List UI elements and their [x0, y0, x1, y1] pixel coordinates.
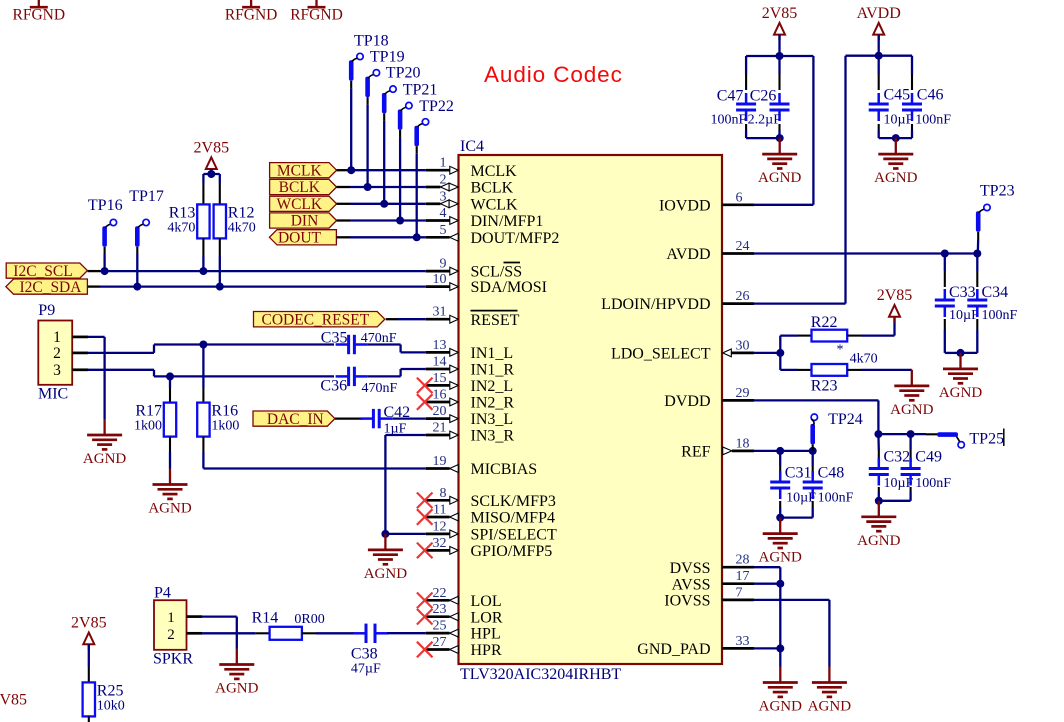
text caret artifact	[1003, 429, 1005, 447]
resistor R17 (1k00)	[134, 403, 176, 437]
pin 30 LDO_SELECT (right)	[611, 338, 754, 362]
svg-text:GPIO/MFP5: GPIO/MFP5	[471, 543, 553, 560]
capacitor C36 plates	[336, 367, 368, 386]
wire DAC_IN to C42	[335, 417, 363, 419]
svg-text:DIN: DIN	[291, 213, 319, 230]
svg-text:DVSS: DVSS	[670, 560, 711, 577]
pin 14 IN1_R (left)	[426, 355, 515, 379]
wire pin 18 REF	[754, 450, 813, 452]
svg-text:IOVSS: IOVSS	[664, 593, 710, 610]
pin 26 LDOIN/HPVDD (right)	[601, 289, 754, 313]
junction C33/C34 ground	[957, 349, 965, 357]
junction pin18/C31	[776, 447, 784, 455]
svg-text:HPR: HPR	[471, 642, 502, 659]
svg-text:4k70: 4k70	[228, 220, 256, 235]
wire C36 to pin 14	[368, 369, 426, 376]
svg-text:30: 30	[736, 338, 750, 353]
C48 labels	[818, 464, 854, 505]
svg-text:23: 23	[433, 602, 447, 617]
svg-text:AGND: AGND	[808, 699, 851, 715]
wire AVDD stem	[878, 35, 880, 56]
svg-text:AGND: AGND	[758, 170, 801, 186]
connector P9 (MIC)	[38, 302, 72, 402]
svg-text:TP19: TP19	[370, 49, 405, 66]
svg-text:1k00: 1k00	[211, 419, 239, 434]
svg-text:MCLK: MCLK	[471, 163, 518, 180]
junction 2V85 rail	[776, 52, 784, 60]
svg-text:R16: R16	[211, 403, 238, 420]
svg-text:C32: C32	[884, 448, 911, 465]
junction C31/C48 ground	[776, 514, 784, 522]
power symbol 2V85 (2V85-R13R12)	[194, 140, 230, 175]
resistor R16 (1k00)	[197, 403, 239, 437]
test point TP25 (horizontal)	[937, 431, 1004, 448]
svg-text:C35: C35	[321, 330, 348, 347]
junction MCLK/TP18	[347, 166, 355, 174]
svg-text:DOUT: DOUT	[278, 230, 322, 247]
junction I2C_SDA/TP17	[133, 283, 141, 291]
svg-text:IOVDD: IOVDD	[659, 197, 711, 214]
wire C47/C26 top rail	[746, 55, 813, 57]
svg-text:100nF: 100nF	[915, 112, 951, 127]
svg-text:R13: R13	[169, 204, 196, 221]
capacitor C47 plates	[736, 93, 756, 121]
svg-text:19: 19	[433, 454, 447, 469]
junction pin30	[776, 349, 784, 357]
svg-text:2V85: 2V85	[877, 287, 913, 304]
test point TP20	[382, 64, 421, 113]
svg-text:AGND: AGND	[939, 385, 982, 401]
ground symbol RFGND-3 (RFGND)	[290, 0, 343, 24]
net label flag CODEC_RESET	[254, 311, 385, 328]
svg-text:DVDD: DVDD	[664, 393, 710, 410]
test point TP18	[349, 32, 389, 80]
wire C45 top lead	[878, 56, 880, 90]
svg-text:29: 29	[736, 386, 750, 401]
wire AVDD rail	[846, 55, 913, 57]
C49 labels	[915, 448, 951, 491]
wire R17 to ground	[169, 437, 171, 469]
ground AGND-IOVSS	[808, 667, 851, 715]
junction C26 ground	[776, 134, 784, 142]
svg-text:IN2_L: IN2_L	[471, 378, 514, 395]
svg-text:AGND: AGND	[890, 402, 933, 418]
svg-text:C34: C34	[982, 284, 1009, 301]
svg-text:10µF: 10µF	[884, 476, 914, 491]
test point TP17	[129, 188, 164, 247]
svg-text:AGND: AGND	[148, 501, 191, 517]
svg-text:R25: R25	[97, 682, 124, 699]
svg-text:TP23: TP23	[980, 182, 1015, 199]
svg-text:2.2µF: 2.2µF	[748, 112, 782, 127]
svg-text:6: 6	[736, 190, 743, 205]
svg-text:32: 32	[433, 536, 447, 551]
junction pin33	[776, 644, 784, 652]
wire C32 bottom lead	[879, 487, 911, 501]
ground AGND-pin12	[364, 534, 407, 582]
wire pin 28 DVSS down	[754, 567, 780, 666]
test point TP23	[976, 182, 1015, 232]
wire C33 bottom lead	[945, 319, 961, 353]
net label flag MCLK	[270, 162, 337, 179]
svg-text:LDOIN/HPVDD: LDOIN/HPVDD	[601, 296, 710, 313]
power symbol 2V85 (2V85-R22)	[877, 287, 913, 322]
svg-text:17: 17	[736, 569, 750, 584]
wire C46 bottom lead	[896, 124, 912, 138]
wire C38 to pin 25	[387, 632, 426, 634]
pin 21 IN3_R (left)	[426, 421, 515, 445]
svg-text:2: 2	[53, 345, 61, 362]
capacitor C31 plates	[770, 471, 790, 499]
svg-text:C47: C47	[717, 87, 744, 104]
svg-text:WCLK: WCLK	[276, 196, 322, 213]
wire C47 bottom lead	[746, 124, 780, 138]
ground AGND-C32	[857, 501, 900, 549]
wire P4 pin1 to ground	[187, 617, 237, 649]
pin 3 WCLK (left)	[426, 189, 518, 213]
pin 27 HPR (left)	[426, 635, 502, 659]
svg-text:8: 8	[440, 486, 447, 501]
svg-text:LOR: LOR	[471, 609, 503, 626]
wire 2V85 to R25	[88, 644, 90, 682]
ground AGND-C26	[758, 138, 801, 186]
resistor R22	[812, 330, 848, 342]
wire pin 7 IOVSS down	[754, 600, 829, 667]
svg-text:12: 12	[433, 519, 447, 534]
net label flag BCLK	[270, 179, 337, 196]
wire pin 24 AVDD rail	[754, 252, 977, 254]
svg-text:2V85: 2V85	[194, 140, 230, 157]
wire R22 to 2V85	[847, 317, 894, 336]
C38 labels	[351, 646, 381, 677]
svg-text:DOUT/MFP2: DOUT/MFP2	[471, 230, 560, 247]
wire TP19 to bus line	[367, 97, 369, 187]
pin 7 IOVSS (right)	[664, 585, 754, 609]
svg-text:MICBIAS: MICBIAS	[471, 461, 538, 478]
wire P9 pin1 to ground	[72, 337, 104, 419]
capacitor C45 plates	[869, 93, 889, 121]
wire R25 bottom lead	[88, 716, 90, 722]
svg-text:2: 2	[167, 627, 175, 643]
capacitor C34 plates	[967, 289, 987, 317]
C47 labels	[711, 87, 747, 127]
capacitor C33 plates	[935, 289, 955, 317]
svg-text:100nF: 100nF	[818, 491, 854, 506]
svg-text:REF: REF	[681, 444, 710, 461]
svg-text:IN3_L: IN3_L	[471, 411, 514, 428]
svg-text:470nF: 470nF	[362, 381, 398, 396]
test point TP16	[88, 197, 123, 247]
svg-text:SPI/SELECT: SPI/SELECT	[471, 527, 557, 544]
wire C34 bottom lead	[961, 319, 978, 353]
svg-text:24: 24	[736, 239, 750, 254]
svg-text:100nF: 100nF	[711, 112, 747, 127]
svg-text:AVDD: AVDD	[666, 246, 710, 263]
svg-text:AVSS: AVSS	[672, 576, 711, 593]
pin 6 IOVDD (right)	[659, 190, 754, 214]
svg-text:AGND: AGND	[874, 170, 917, 186]
wire C33 top lead	[944, 254, 946, 288]
no-connect X pin 23	[417, 609, 433, 625]
svg-text:C45: C45	[884, 86, 911, 103]
wire 2V85 stem to R13/R12	[203, 169, 219, 174]
junction pin17	[776, 580, 784, 588]
junction BCLK/TP19	[364, 183, 372, 191]
net label flag DAC_IN	[253, 411, 335, 428]
svg-text:0R00: 0R00	[294, 612, 324, 627]
C35 labels	[321, 330, 397, 347]
resistor R25 (10k0)	[83, 682, 125, 716]
pin 28 DVSS (right)	[670, 553, 754, 577]
svg-text:P9: P9	[38, 302, 55, 319]
wire C47 top lead	[745, 56, 747, 90]
svg-text:RFGND: RFGND	[290, 7, 343, 24]
svg-text:MIC: MIC	[38, 385, 68, 402]
pin 23 LOR (left)	[426, 602, 503, 626]
wire MCLK flag to pin 1	[337, 169, 426, 171]
C34 labels	[982, 284, 1018, 323]
junction I2C_SCL/TP16	[101, 267, 109, 275]
wire R23 to ground	[847, 369, 912, 372]
capacitor C49 plates	[901, 458, 921, 486]
no-connect X pin 27	[417, 642, 433, 658]
wire AVDD rail down to pin 26	[754, 56, 846, 304]
C32 labels	[884, 448, 914, 491]
net label flag I2C_SCL	[6, 263, 87, 280]
wire R17 top lead	[169, 376, 171, 402]
wire C32/C49 top rail to TP25	[878, 433, 937, 435]
wire C31 top lead	[779, 451, 781, 477]
wire TP22 to bus line	[416, 146, 418, 237]
C36 labels	[320, 378, 397, 397]
capacitor C26 plates	[770, 93, 790, 121]
svg-text:R22: R22	[811, 314, 838, 331]
junction 2V85/R13/R12	[207, 170, 215, 178]
svg-text:13: 13	[433, 338, 447, 353]
svg-text:25: 25	[433, 619, 447, 634]
pin 4 DIN/MFP1 (left)	[426, 206, 544, 230]
pin 24 AVDD (right)	[666, 239, 754, 263]
svg-text:28: 28	[736, 553, 750, 568]
capacitor C42 plates	[360, 409, 392, 428]
IC IC4 body (TLV320AIC3204IRHBT audio codec)	[459, 155, 723, 664]
junction pin2-line/R16	[199, 341, 207, 349]
svg-text:TP18: TP18	[354, 32, 389, 49]
svg-text:14: 14	[433, 355, 447, 370]
pin 2 BCLK (left)	[426, 173, 514, 197]
wire DIN flag to pin 4	[337, 219, 426, 221]
pin 12 SPI/SELECT (left)	[426, 519, 557, 543]
wire C26 bottom lead	[778, 124, 780, 138]
junction C49/TP25	[907, 430, 915, 438]
svg-text:2V85: 2V85	[0, 692, 27, 709]
pin 32 GPIO/MFP5 (left)	[426, 536, 553, 560]
power symbol 2V85 (2V85-R25)	[71, 615, 107, 650]
wire I2C_SDA to pin 10	[88, 285, 426, 287]
capacitor C46 plates	[902, 93, 922, 121]
svg-text:HPL: HPL	[471, 626, 501, 643]
svg-text:31: 31	[433, 305, 447, 320]
svg-text:TP16: TP16	[88, 197, 123, 214]
svg-text:AGND: AGND	[215, 681, 258, 697]
wire P4 pin2 to R14	[187, 632, 270, 635]
wire TP24 to pin 18	[812, 444, 814, 451]
connector P4 (SPKR)	[153, 585, 193, 668]
svg-text:4k70: 4k70	[850, 351, 878, 366]
capacitor C35 plates	[336, 335, 368, 354]
svg-text:1: 1	[440, 156, 447, 171]
svg-text:P4: P4	[154, 585, 171, 602]
svg-text:3: 3	[440, 189, 447, 204]
wire R12 top lead	[219, 174, 221, 204]
pin 5 DOUT/MFP2 (left)	[426, 223, 560, 247]
ground AGND-DVSS	[759, 667, 802, 715]
wire P9 pin3 to C36	[72, 370, 334, 377]
no-connect X pin 22	[417, 593, 433, 609]
svg-text:10µF: 10µF	[884, 112, 914, 127]
power symbol 2V85 (2V85-C47)	[762, 5, 798, 40]
wire C49 bottom lead	[910, 487, 912, 501]
wire pin 17 AVSS	[754, 583, 780, 585]
pin 16 IN2_R (left)	[426, 388, 515, 412]
C42 labels	[384, 404, 411, 436]
R22 labels	[811, 314, 878, 366]
junction pin24/C33	[941, 250, 949, 258]
pin 11 MISO/MFP4 (left)	[426, 503, 555, 527]
svg-text:TP17: TP17	[129, 188, 164, 205]
junction C45/C46 ground	[892, 134, 900, 142]
ground AGND-C31	[759, 518, 802, 566]
svg-text:C36: C36	[320, 378, 347, 395]
ground AGND-R23	[890, 370, 933, 418]
svg-text:SCL/SS: SCL/SS	[471, 264, 523, 281]
test point TP21	[398, 81, 438, 130]
wire R23 left lead	[780, 369, 811, 371]
wire I2C_SCL to pin 9	[88, 270, 426, 272]
wire rail to pin 6	[754, 56, 813, 205]
pin 20 IN3_L (left)	[426, 404, 513, 428]
svg-text:1: 1	[167, 610, 175, 626]
svg-text:C31: C31	[785, 464, 812, 481]
wire R16 to MICBIAS pin 19	[203, 437, 425, 469]
net label flag DOUT	[269, 230, 336, 247]
wire TP17 to I2C_SDA	[136, 247, 138, 287]
wire pin 21 to pin 12 / ground	[385, 435, 425, 534]
capacitor C32 plates	[869, 458, 889, 486]
no-connect X pin 16	[417, 394, 433, 410]
svg-text:21: 21	[433, 421, 447, 436]
junction pin12/ground	[381, 530, 389, 538]
junction I2C_SCL/R13	[199, 267, 207, 275]
svg-text:10µF: 10µF	[949, 308, 979, 323]
wire pin 33 GND_PAD	[754, 647, 780, 649]
svg-text:BCLK: BCLK	[279, 179, 321, 196]
svg-text:WCLK: WCLK	[471, 196, 519, 213]
svg-text:IN3_R: IN3_R	[471, 428, 515, 445]
svg-text:7: 7	[736, 585, 743, 600]
wire C34 top lead	[976, 254, 978, 288]
wire R12 bottom lead to I2C_SDA	[219, 238, 221, 286]
svg-text:15: 15	[433, 371, 447, 386]
svg-text:MCLK: MCLK	[277, 162, 323, 179]
svg-text:SPKR: SPKR	[153, 651, 193, 668]
junction pin3-line/R17	[166, 372, 174, 380]
svg-text:2: 2	[440, 173, 447, 188]
resistor R23	[812, 364, 848, 376]
svg-text:DIN/MFP1: DIN/MFP1	[471, 213, 544, 230]
svg-text:IN1_L: IN1_L	[471, 345, 514, 362]
pin 1 MCLK (left)	[426, 156, 517, 180]
svg-text:10k0: 10k0	[97, 698, 125, 713]
pin 33 GND_PAD (right)	[637, 634, 754, 658]
wire C32 top lead	[877, 434, 880, 462]
capacitor C48 plates	[803, 471, 823, 499]
svg-text:MISO/MFP4: MISO/MFP4	[471, 510, 555, 527]
wire TP23 down to pin 24 line	[977, 232, 980, 254]
svg-text:4: 4	[440, 206, 447, 221]
wire C46 top lead	[911, 56, 913, 90]
svg-text:CODEC_RESET: CODEC_RESET	[262, 311, 370, 328]
test point TP24	[810, 411, 862, 444]
svg-text:5: 5	[440, 223, 447, 238]
wire C49 top lead	[909, 434, 911, 462]
pin 10 SDA/MOSI (left)	[426, 272, 547, 296]
no-connect X pin 11	[417, 509, 433, 525]
wire C26 top lead	[778, 56, 780, 90]
no-connect X pin 8	[417, 493, 433, 509]
junction DIN/TP21	[396, 217, 404, 225]
svg-text:LDO_SELECT: LDO_SELECT	[611, 346, 711, 363]
svg-text:R14: R14	[252, 610, 279, 627]
R14 labels	[252, 610, 325, 627]
svg-text:11: 11	[433, 503, 446, 518]
ground AGND-P4	[215, 649, 258, 697]
junction C32/C49 ground	[875, 497, 883, 505]
wire pin 29 DVDD	[754, 400, 878, 434]
junction WCLK/TP20	[380, 200, 388, 208]
ground AGND-C45	[874, 138, 917, 186]
svg-text:TP25: TP25	[969, 431, 1004, 448]
svg-text:C38: C38	[351, 646, 378, 663]
wire CODEC_RESET to pin 31	[386, 318, 426, 320]
wire BCLK flag to pin 2	[337, 186, 426, 188]
svg-text:AVDD: AVDD	[857, 5, 901, 22]
resistor R14	[270, 627, 302, 640]
svg-text:RESET: RESET	[471, 312, 520, 329]
svg-text:DAC_IN: DAC_IN	[267, 411, 324, 428]
svg-text:C26: C26	[750, 87, 777, 104]
capacitor C38 plates	[353, 624, 388, 643]
svg-text:10: 10	[433, 272, 447, 287]
svg-text:R17: R17	[135, 403, 162, 420]
svg-text:TLV320AIC3204IRHBT: TLV320AIC3204IRHBT	[460, 666, 621, 683]
junction pin24/C34/TP23	[973, 250, 981, 258]
junction C32	[874, 430, 882, 438]
svg-text:C33: C33	[949, 284, 976, 301]
wire C48 bottom lead	[812, 501, 814, 518]
svg-text:1k00: 1k00	[134, 419, 162, 434]
ground AGND-R17	[148, 469, 191, 517]
resistor R13 (4k70)	[167, 204, 209, 238]
svg-text:IN2_R: IN2_R	[471, 395, 515, 412]
net label flag DIN	[270, 213, 337, 230]
svg-text:2V85: 2V85	[762, 5, 798, 22]
pin 29 DVDD (right)	[664, 386, 754, 410]
svg-text:IN1_R: IN1_R	[471, 362, 515, 379]
svg-text:9: 9	[440, 257, 447, 272]
svg-text:R23: R23	[811, 378, 838, 395]
wire C48 top lead	[812, 451, 814, 477]
